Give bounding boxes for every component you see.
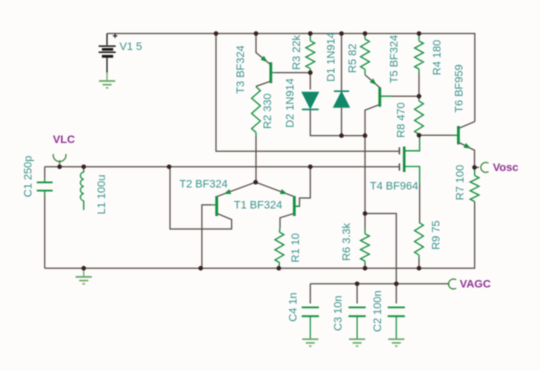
svg-text:R5 82: R5 82 bbox=[347, 44, 359, 73]
svg-text:T3 BF324: T3 BF324 bbox=[235, 45, 247, 93]
svg-text:C2 100n: C2 100n bbox=[372, 290, 384, 332]
svg-text:T5 BF324: T5 BF324 bbox=[389, 35, 401, 83]
svg-text:R6 3.3k: R6 3.3k bbox=[341, 222, 353, 260]
svg-text:D1 1N914: D1 1N914 bbox=[326, 32, 338, 82]
svg-text:T4 BF964: T4 BF964 bbox=[370, 181, 418, 193]
svg-text:T2 BF324: T2 BF324 bbox=[179, 178, 227, 190]
svg-text:R3 22k: R3 22k bbox=[291, 35, 303, 70]
svg-text:C3 10n: C3 10n bbox=[332, 296, 344, 331]
svg-text:T1 BF324: T1 BF324 bbox=[234, 199, 282, 211]
svg-text:R1 10: R1 10 bbox=[290, 233, 302, 262]
svg-text:C4 1n: C4 1n bbox=[287, 292, 299, 321]
svg-text:R4 180: R4 180 bbox=[431, 40, 443, 75]
svg-text:VAGC: VAGC bbox=[460, 279, 491, 291]
svg-text:R8 470: R8 470 bbox=[395, 102, 407, 137]
svg-text:R7 100: R7 100 bbox=[455, 165, 467, 200]
svg-text:V1 5: V1 5 bbox=[120, 41, 143, 53]
svg-text:Vosc: Vosc bbox=[493, 162, 518, 174]
svg-text:R2 330: R2 330 bbox=[262, 93, 274, 128]
svg-text:C1 250p: C1 250p bbox=[22, 156, 34, 198]
svg-text:D2 1N914: D2 1N914 bbox=[284, 78, 296, 128]
svg-text:T6 BF959: T6 BF959 bbox=[454, 64, 466, 112]
svg-text:VLC: VLC bbox=[53, 134, 75, 146]
svg-text:L1 100u: L1 100u bbox=[96, 175, 108, 215]
svg-text:R9 75: R9 75 bbox=[430, 220, 442, 249]
